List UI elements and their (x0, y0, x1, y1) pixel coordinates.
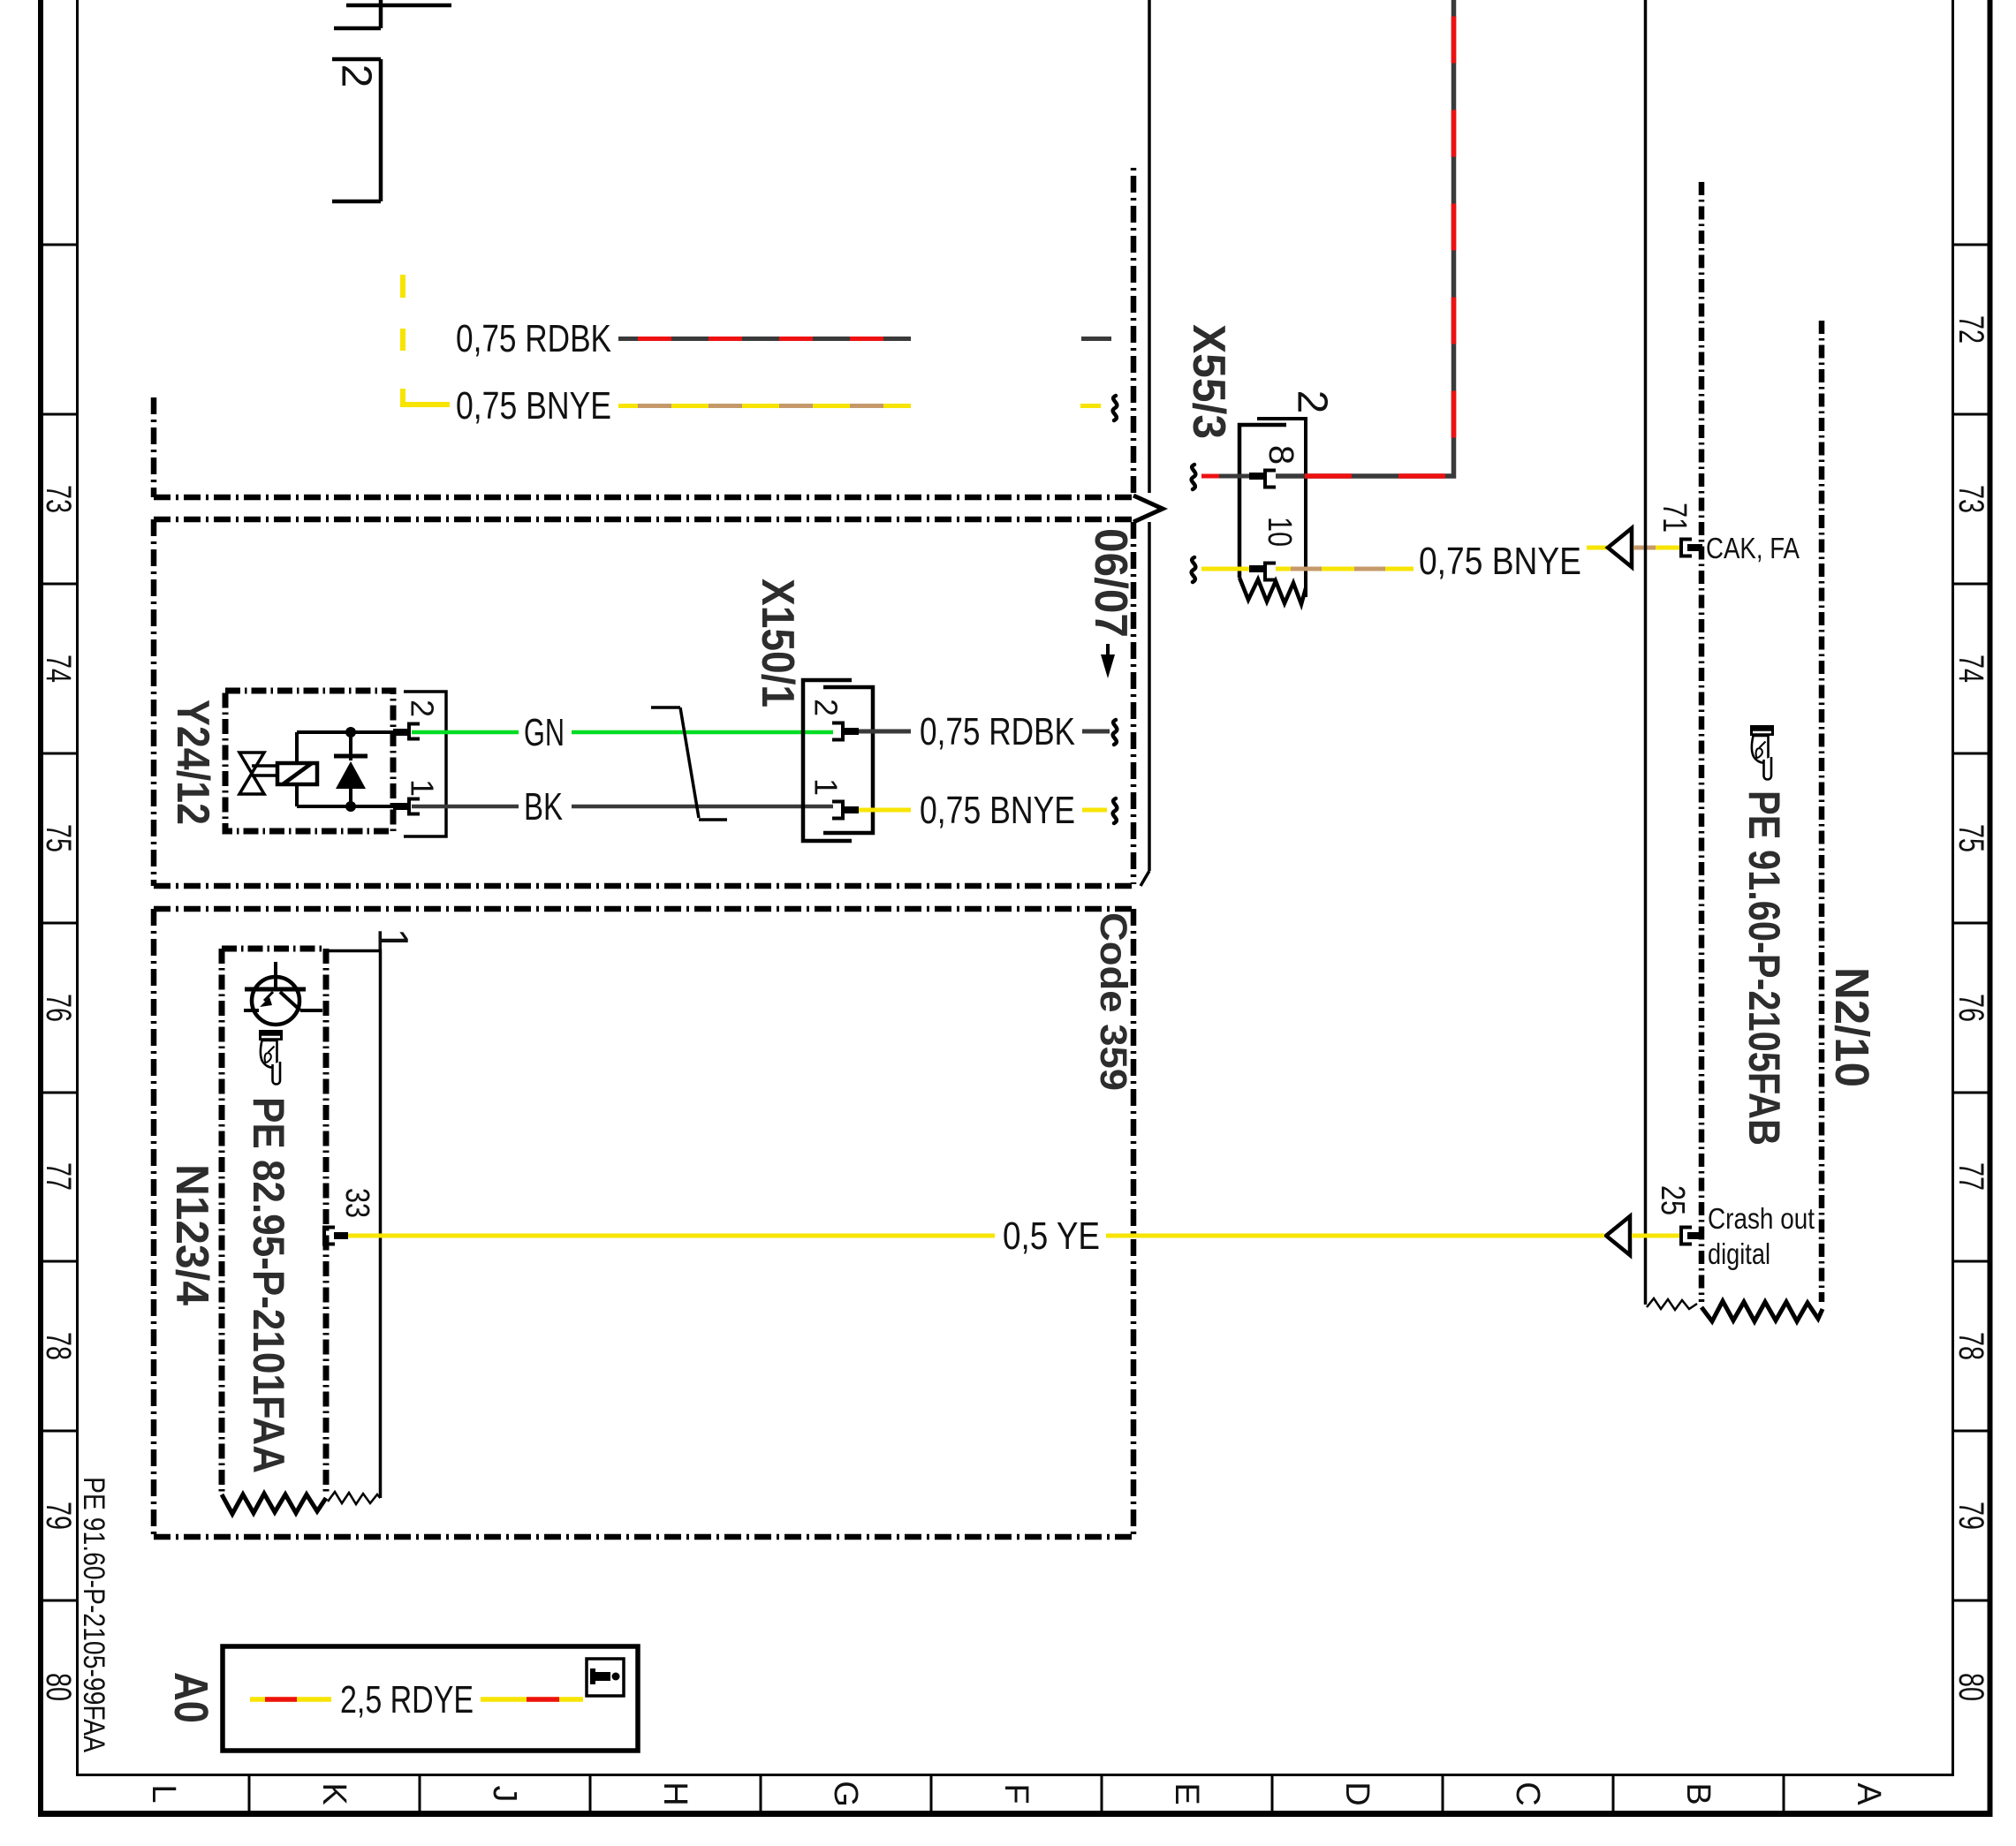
N2/10 bottom zigzag break (1701, 1301, 1823, 1321)
label N2/10 (1825, 967, 1878, 1087)
legend text 2,5 RDYE (340, 1678, 474, 1721)
Y24/12 pin 1 stub (393, 803, 409, 810)
junction node top (345, 727, 356, 738)
Y24/12 mating connector bracket (404, 692, 446, 836)
wire label 0,75 RDBK (upper) (456, 317, 611, 360)
transistor symbol in N123/4 (244, 962, 322, 1025)
wire BK dark (right) (572, 805, 833, 809)
connector X150/1 pin half (823, 687, 873, 833)
wire yellow stub into pin 10 (1201, 567, 1249, 571)
svg-text:78: 78 (1952, 1332, 1990, 1360)
X55/3 pin 10 contact (1265, 564, 1276, 580)
separator line (solid) right of boxes (1141, 0, 1149, 886)
svg-text:CAK, FA: CAK, FA (1706, 532, 1800, 564)
X55/3 pin 8 stub (1249, 473, 1265, 480)
svg-text:0,75 RDBK: 0,75 RDBK (920, 710, 1075, 753)
wire 0,75 BNYE dashed brown/yellow (upper) (618, 404, 911, 408)
svg-text:0,75 RDBK: 0,75 RDBK (456, 317, 611, 360)
wire stub dark after X150/1 pin 2 (859, 730, 911, 734)
svg-text:1: 1 (808, 778, 845, 796)
wire 0,75 BNYE broken continuation dash (1080, 404, 1101, 408)
legend box A0 (223, 1646, 638, 1751)
wire red/black from pin 8 to top edge (1276, 0, 1454, 476)
legend wire sample right (481, 1697, 583, 1702)
wire 0,75 RDBK dashed red/black (upper) (618, 337, 911, 341)
open arrow into N2/10 pin 71 (1608, 528, 1632, 567)
wire brown/yellow from pin 10 (1276, 567, 1413, 571)
control unit bracket line (1644, 0, 1648, 1305)
control unit N2/10 box right edge (1819, 321, 1825, 1302)
Y24/12 pin 1 contact (409, 799, 420, 814)
svg-text:PE 91.60-P-2105-99FAA: PE 91.60-P-2105-99FAA (77, 1477, 110, 1752)
harness crossing slash (651, 707, 727, 820)
function-group box 06/07 (dash-dot) (154, 519, 1135, 886)
X150/1 pin 2 stub (843, 728, 859, 735)
pointing hand icon N2/10 (1750, 725, 1774, 780)
svg-text:N123/4: N123/4 (166, 1164, 217, 1305)
connector block at top edge (cut off) (334, 0, 451, 28)
svg-text:PE 91.60-P-2105FAB: PE 91.60-P-2105FAB (1739, 791, 1789, 1146)
svg-text:H: H (656, 1782, 693, 1805)
svg-text:1: 1 (369, 928, 416, 952)
solenoid coil of Y24/12 (277, 763, 317, 784)
svg-text:10: 10 (1261, 517, 1298, 547)
Y24/12 pin 2 contact (409, 724, 420, 739)
twisted-wire tilde on BNYE lower (1113, 798, 1118, 823)
svg-text:Code 359: Code 359 (1092, 912, 1134, 1091)
wire label 0,75 RDBK (at X150/1) (920, 710, 1075, 753)
wire RDBK continuation dash right (1082, 730, 1110, 734)
N123/4 bracket thin zigzag (328, 1492, 381, 1504)
frame inner bottom border (78, 1774, 1953, 1776)
svg-text:2: 2 (808, 699, 845, 716)
frame outer bottom border (38, 1811, 1993, 1817)
svg-text:B: B (1679, 1782, 1717, 1804)
code box Code 359 (dash-dot) (154, 909, 1133, 1537)
svg-text:74: 74 (1952, 654, 1990, 683)
wire GN green (right) (572, 730, 833, 735)
svg-text:75: 75 (1952, 824, 1990, 852)
svg-text:06/07: 06/07 (1085, 528, 1136, 638)
svg-text:0,75 BNYE: 0,75 BNYE (456, 384, 611, 427)
Y24/12 pin 2 label (405, 700, 441, 717)
N2/10 pin 71 contact (1681, 540, 1692, 556)
svg-text:71: 71 (1656, 503, 1693, 533)
svg-text:2,5 RDYE: 2,5 RDYE (340, 1678, 474, 1721)
wire red stub into pin 8 (1201, 474, 1249, 479)
X150/1 pin 1 stub (843, 806, 859, 813)
svg-text:79: 79 (1952, 1502, 1990, 1530)
svg-text:77: 77 (39, 1162, 78, 1191)
svg-text:0,75 BNYE: 0,75 BNYE (1419, 540, 1581, 583)
N123/4 pin 33 stub (334, 1232, 348, 1239)
X150/1 pin 2 contact (832, 723, 843, 740)
svg-text:76: 76 (39, 994, 78, 1022)
X55/3 body box (1239, 425, 1286, 578)
svg-text:N2/10: N2/10 (1825, 967, 1878, 1087)
N2/10 pin 25 stub (1687, 1232, 1702, 1239)
svg-text:G: G (827, 1781, 864, 1807)
connector X150/1 socket half (803, 680, 852, 841)
X150/1 pin 1 contact (832, 802, 843, 819)
label 06/07 (1085, 528, 1136, 638)
wire label BK (524, 785, 563, 828)
yellow dashed branch wire (403, 275, 450, 405)
connector X150/1 label (752, 579, 803, 707)
label Y24/12 (167, 700, 218, 825)
wire 0,5 YE yellow (right) (1106, 1234, 1604, 1238)
svg-text:X55/3: X55/3 (1183, 324, 1234, 439)
svg-text:X150/1: X150/1 (752, 579, 803, 707)
wire 0,5 YE yellow (left) (348, 1234, 995, 1238)
svg-text:74: 74 (39, 654, 78, 683)
N123/4 pin 33 contact (324, 1228, 335, 1245)
N2/10 pin 71 label (1656, 503, 1693, 533)
wire label 0,75 BNYE (upper) (456, 384, 611, 427)
twisted-wire tilde on BNYE upper (1113, 396, 1118, 420)
wire label 0,75 BNYE (to N2/10) (1419, 540, 1581, 583)
svg-text:PE 82.95-P-2101FAA: PE 82.95-P-2101FAA (244, 1097, 293, 1473)
svg-text:2: 2 (405, 700, 441, 717)
Y24/12 pin 2 stub (393, 729, 409, 736)
valve symbol of Y24/12 (239, 753, 277, 794)
sheet number text PE 91.60-P-2105-99FAA (77, 1477, 110, 1752)
label Code 359 (1092, 912, 1134, 1091)
svg-text:J: J (486, 1786, 523, 1803)
wire BK dark (left) (412, 805, 519, 809)
svg-text:F: F (997, 1783, 1035, 1804)
svg-text:80: 80 (1952, 1673, 1990, 1701)
N123/4 pin 33 label (338, 1188, 375, 1218)
control unit N2/10 box left edge (1699, 182, 1705, 1302)
legend wire sample left (250, 1697, 331, 1702)
connector X55/3 label (1183, 324, 1234, 439)
frame left band row dividers (39, 245, 78, 1600)
pin 2 label of top connector (333, 64, 380, 88)
arrow down for 06/07 (1101, 644, 1115, 678)
svg-text:33: 33 (338, 1188, 375, 1218)
info icon (587, 1659, 624, 1696)
N2/10 pin 25 contact (1681, 1228, 1692, 1245)
X150/1 pin 1 label (808, 778, 845, 796)
svg-text:0,5 YE: 0,5 YE (1003, 1214, 1100, 1258)
svg-text:73: 73 (39, 485, 78, 513)
open arrow into N2/10 pin 25 (1606, 1216, 1630, 1255)
label A0 (164, 1672, 217, 1723)
label N123/4 (166, 1164, 217, 1305)
bracket line thin zigzag (1647, 1298, 1697, 1310)
svg-text:80: 80 (39, 1673, 78, 1701)
wire yellow into pin 25 (1632, 1234, 1679, 1238)
svg-text:75: 75 (39, 824, 78, 852)
svg-text:73: 73 (1952, 485, 1990, 513)
signal name CAK, FA (1706, 532, 1800, 564)
frame left band row numbers (39, 485, 78, 1701)
twisted-wire tilde on RDBK (1113, 720, 1118, 745)
N2/10 pin 71 stub (1687, 544, 1702, 551)
X55/3 pin 2 label (mating side) (1289, 390, 1336, 414)
suppressor diode of Y24/12 (334, 732, 368, 806)
function-group box upper (dash-dot) (154, 163, 1133, 497)
X55/3 mating half top (1257, 419, 1306, 597)
svg-text:A0: A0 (164, 1672, 217, 1723)
svg-text:76: 76 (1952, 994, 1990, 1022)
wire label 0,5 YE (1003, 1214, 1100, 1258)
svg-text:GN: GN (524, 711, 565, 754)
svg-text:D: D (1338, 1782, 1376, 1805)
svg-text:2: 2 (333, 64, 380, 88)
wire label GN (524, 711, 565, 754)
svg-text:K: K (315, 1782, 352, 1804)
signal name Crash out digital (1708, 1202, 1815, 1270)
X55/3 pin 8 contact (1265, 471, 1276, 488)
frame inner right border (1952, 0, 1954, 1776)
frame outer right border (1988, 0, 1993, 1817)
N123/4 bracket pin 1 label (369, 928, 416, 952)
N123/4 connector bracket (328, 951, 381, 1499)
svg-text:78: 78 (39, 1332, 78, 1360)
wire brown then yellow into pin 71 (1633, 546, 1679, 550)
svg-text:C: C (1509, 1782, 1546, 1805)
document ref PE 91.60-P-2105FAB (1739, 791, 1789, 1146)
control unit N123/4 box (dash-dot) (222, 949, 326, 1494)
X55/3 pin 8 label (1262, 445, 1300, 465)
coil connection wires (297, 732, 408, 806)
top connector bracket (332, 59, 381, 201)
frame outer left border (38, 0, 43, 1817)
svg-text:0,75 BNYE: 0,75 BNYE (920, 789, 1075, 832)
chevron junction between function-group boxes (1133, 496, 1163, 522)
svg-text:Crash out: Crash out (1708, 1202, 1815, 1235)
frame right band row numbers (1952, 315, 1990, 1701)
Y24/12 pin 1 label (405, 779, 441, 797)
wire GN green (left) (412, 730, 519, 735)
frame bottom band column letters (145, 1781, 1887, 1807)
svg-text:79: 79 (39, 1502, 78, 1530)
X150/1 pin 2 label (808, 699, 845, 716)
N123/4 bottom zigzag break (222, 1494, 326, 1514)
svg-text:A: A (1850, 1782, 1887, 1805)
wire BNYE continuation dash right (1082, 808, 1107, 813)
pointing hand icon N123/4 (259, 1030, 283, 1085)
frame inner left border (76, 0, 79, 1776)
wire label 0,75 BNYE (at X150/1) (920, 789, 1075, 832)
wire 0,75 RDBK broken continuation dash (1081, 337, 1111, 341)
wire yellow segment before arrow (1587, 546, 1607, 550)
svg-text:8: 8 (1262, 445, 1300, 465)
solenoid valve Y24/12 box (dash-dot) (225, 691, 393, 831)
X55/3 pin 10 stub (1249, 565, 1265, 572)
document ref PE 82.95-P-2101FAA (244, 1097, 293, 1473)
svg-text:2: 2 (1289, 390, 1336, 414)
junction node bottom (345, 801, 356, 812)
svg-text:digital: digital (1708, 1237, 1770, 1270)
svg-text:72: 72 (1952, 315, 1990, 344)
svg-text:L: L (145, 1784, 182, 1803)
svg-text:BK: BK (524, 785, 563, 828)
svg-text:77: 77 (1952, 1162, 1990, 1191)
frame right band row dividers (1953, 245, 1992, 1600)
svg-text:E: E (1168, 1782, 1205, 1804)
svg-text:1: 1 (405, 779, 441, 797)
svg-text:Y24/12: Y24/12 (167, 700, 218, 825)
X55/3 body zigzag break (1239, 578, 1306, 604)
X55/3 pin 10 label (1261, 517, 1298, 547)
svg-text:25: 25 (1654, 1185, 1691, 1215)
twisted-wire tilde left of pin 10 (1192, 557, 1196, 582)
N2/10 pin 25 label (1654, 1185, 1691, 1215)
frame bottom band column dividers (249, 1775, 1784, 1814)
twisted-wire tilde left of pin 8 (1192, 465, 1196, 489)
wire stub yellow after X150/1 pin 1 (859, 808, 911, 813)
